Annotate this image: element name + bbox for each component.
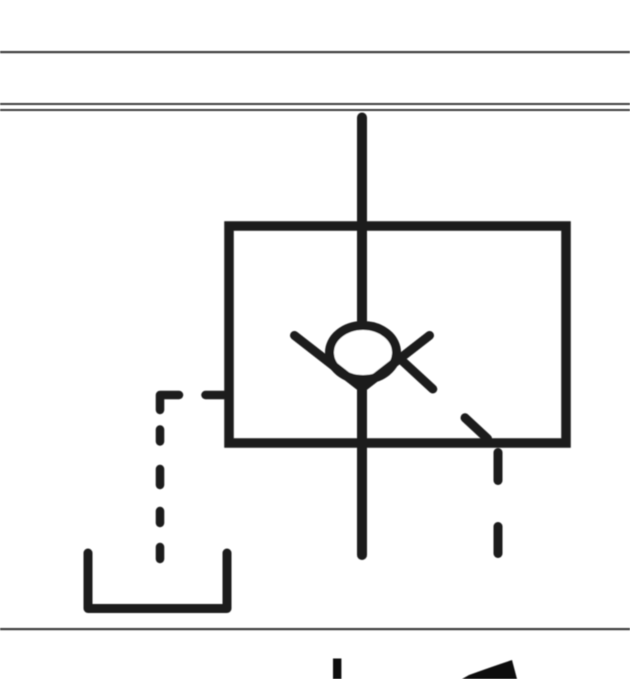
pilot dash horizontal: [206, 391, 229, 400]
cropped lever line next figure: [333, 659, 341, 679]
seat arm left: [295, 336, 363, 389]
pilot diagonal lower: [465, 418, 488, 439]
page rule line upper double 2: [0, 109, 630, 111]
seat wedge fill: [330, 360, 396, 394]
drain dash 1: [494, 453, 503, 481]
pilot dash v4: [156, 511, 165, 523]
pilot dash v2: [156, 430, 165, 442]
check ball: [330, 326, 397, 380]
page rule line bottom: [0, 628, 630, 630]
tank T1: [88, 553, 227, 609]
pilot dash v3: [156, 469, 165, 485]
drain dash 2: [494, 527, 503, 554]
pilot dash v5: [156, 547, 165, 559]
wire inlet line vertical: [357, 118, 367, 556]
pilot dash corner: [160, 395, 179, 410]
cropped arrowhead next figure: [462, 660, 517, 679]
valve body rectangle U1: [229, 226, 566, 443]
pilot diagonal upper: [399, 358, 433, 389]
page rule line top: [0, 51, 630, 53]
seat arm right: [362, 336, 430, 389]
page rule line upper double 1: [0, 103, 630, 105]
